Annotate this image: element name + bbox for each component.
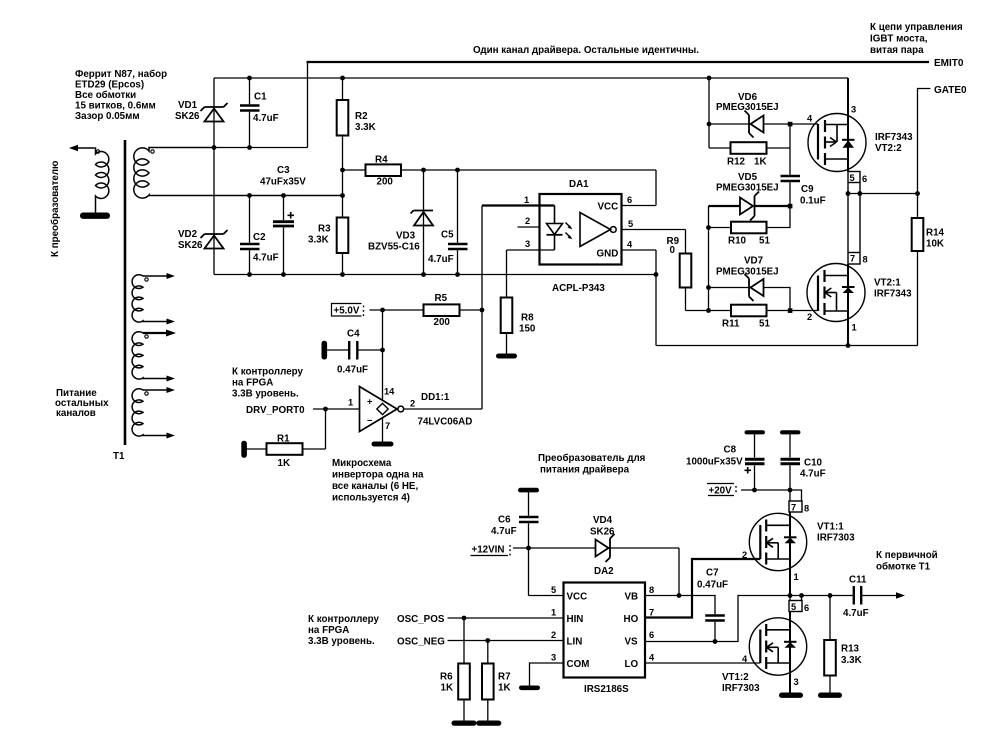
optocoupler DA1 box [540,194,622,265]
svg-text:R2: R2 [355,111,368,122]
capacitor C6 [528,492,530,516]
svg-text:6: 6 [649,630,654,640]
capacitor C5 [457,170,459,243]
svg-text:SK26: SK26 [175,111,200,122]
svg-text:витая пара: витая пара [870,45,924,56]
svg-text:4.7uF: 4.7uF [253,113,279,124]
svg-text:6: 6 [862,174,867,184]
svg-text:3.3В уровень.: 3.3В уровень. [308,636,375,647]
svg-text:R12: R12 [727,157,746,168]
DA1 pin 6 wire [622,205,657,207]
capacitor C3 electrolytic [283,196,285,221]
svg-text:ACPL-P343: ACPL-P343 [552,283,605,294]
svg-text:R7: R7 [498,672,511,683]
svg-text:+5.0V: +5.0V [334,306,360,317]
svg-text:EMIT0: EMIT0 [934,58,964,69]
svg-text:PMEG3015EJ: PMEG3015EJ [716,102,779,113]
DA2 pin4 LO wire [645,662,760,664]
svg-text:Преобразователь для: Преобразователь для [538,453,646,464]
winding 2 arrows [167,273,176,279]
resistor R7 [487,641,489,664]
wire rail y78 [214,77,848,79]
DA1 pin 2 stub [518,226,540,228]
svg-text:DD1:1: DD1:1 [421,392,450,403]
polarity dot winding 3 [145,335,148,338]
MOSFET VT1:2 IRF7303 n-channel [749,618,806,675]
svg-text:1000uFx35V: 1000uFx35V [686,457,743,468]
svg-text:C6: C6 [498,515,511,526]
svg-text:T1: T1 [113,451,125,462]
pin box 7/8 VT1:1 [789,501,802,512]
svg-text:VD4: VD4 [593,515,613,526]
svg-text:LIN: LIN [567,637,583,648]
svg-text:инвертора одна на: инвертора одна на [332,470,424,481]
svg-text:R10: R10 [728,236,747,247]
svg-text:VT1:1: VT1:1 [817,522,844,533]
svg-text:8: 8 [804,504,809,514]
resistor R13 [829,596,831,641]
svg-text:IGBT моста,: IGBT моста, [870,34,928,45]
svg-text:+: + [367,397,373,407]
svg-text:OSC_NEG: OSC_NEG [397,637,445,648]
svg-text:LO: LO [625,659,639,670]
svg-text:DA2: DA2 [594,566,614,577]
ground above C6 [518,488,539,493]
power port +20V [707,483,734,485]
svg-text:PMEG3015EJ: PMEG3015EJ [716,267,779,278]
diode VD2 SK26 [201,230,228,249]
DA1 internal buffer triangle [580,213,611,247]
transformer T1 core [124,140,127,445]
svg-text:200: 200 [377,177,394,188]
resistor R8 [506,250,508,298]
svg-text:3.3K: 3.3K [355,122,376,133]
capacitor C8 electrolytic [754,434,756,458]
svg-text:5: 5 [628,219,633,229]
svg-text:51: 51 [759,319,770,330]
resistor R12 [709,147,731,149]
svg-text:VS: VS [625,637,639,648]
svg-text:все каналы (6 НЕ,: все каналы (6 НЕ, [332,481,418,492]
svg-text:6: 6 [627,195,632,205]
transformer winding 3 [132,332,171,379]
wire R9 to R11 row [686,310,732,312]
resistor R9 [685,230,687,254]
svg-text:VCC: VCC [598,202,619,213]
DA1 pin 5 wire [622,229,686,231]
svg-text:+12VIN: +12VIN [472,545,505,556]
svg-text:5: 5 [850,173,855,183]
capacitor C4 [322,341,328,360]
svg-text:C1: C1 [254,92,267,103]
svg-text:C5: C5 [441,230,454,241]
svg-text:8: 8 [649,585,654,595]
svg-text:питания драйвера: питания драйвера [540,465,630,476]
svg-text:К контроллеру: К контроллеру [232,367,304,378]
svg-text:1: 1 [852,323,857,333]
svg-text:3.3В уровень.: 3.3В уровень. [232,389,299,400]
svg-text:1K: 1K [441,683,454,694]
svg-text:3: 3 [551,653,556,663]
svg-text:VT2:1: VT2:1 [874,278,901,289]
svg-text:Феррит N87, набор: Феррит N87, набор [75,69,167,80]
DD1 output wire [404,408,482,410]
diode VD7 PMEG3015EJ [709,287,751,289]
svg-text:Зазор 0.05мм: Зазор 0.05мм [75,111,140,122]
svg-text:1: 1 [524,195,529,205]
svg-text:обмотке Т1: обмотке Т1 [876,562,931,573]
svg-text:47uFx35V: 47uFx35V [260,177,306,188]
svg-text:0: 0 [670,245,676,256]
svg-text:4.7uF: 4.7uF [843,608,869,619]
capacitor C7 [705,614,725,616]
svg-text:1: 1 [794,572,799,582]
svg-text:IRF7303: IRF7303 [722,683,760,694]
resistor R6 [463,618,465,664]
transformer winding 2 [132,275,171,322]
svg-text:7: 7 [649,608,654,618]
svg-text:VD2: VD2 [178,229,198,240]
wire node column x482 [481,206,483,410]
DA1 pin 1 wire (bold) [482,204,555,206]
svg-text:Один канал драйвера. Остальные: Один канал драйвера. Остальные идентичны… [473,45,699,56]
svg-text:используется 4): используется 4) [332,493,410,504]
diode VD5 PMEG3015EJ (bold row) [709,205,741,207]
wire top lead to riser [214,147,308,149]
ground under primary [80,213,110,219]
svg-text:15 витков, 0.6мм: 15 витков, 0.6мм [75,101,156,112]
svg-text:2: 2 [807,312,812,322]
svg-text:14: 14 [384,387,395,397]
svg-text:51: 51 [759,236,770,247]
svg-text:0.1uF: 0.1uF [800,196,826,207]
svg-text:К первичной: К первичной [876,550,938,561]
driver DA2 box [564,583,646,678]
diode VD4 SK26 [596,534,615,562]
svg-text:4: 4 [649,653,655,663]
wire left column upper x709 [708,78,710,148]
ground above C10 [780,430,801,434]
svg-text:8: 8 [863,255,868,265]
wire gate node VT2:2 [790,123,818,125]
svg-text:0.47uF: 0.47uF [697,580,728,591]
polarity dot winding 2 [145,278,148,281]
svg-text:VD1: VD1 [178,100,198,111]
svg-text:R4: R4 [375,155,388,166]
svg-text:C10: C10 [804,458,823,469]
capacitor C10 [789,434,791,458]
svg-text:HIN: HIN [567,614,584,625]
svg-text:IRF7343: IRF7343 [875,132,913,143]
power port +5.0V [332,304,364,317]
svg-text:0.47uF: 0.47uF [337,365,368,376]
svg-text:150: 150 [519,324,536,335]
MOSFET VT2:2 IRF7343 p-channel [847,78,849,172]
DA1 pin 3 wire [507,249,555,251]
resistor R5 [424,304,460,316]
svg-text:2: 2 [551,630,556,640]
svg-text:7: 7 [850,254,855,264]
capacitor C11 [853,586,855,605]
svg-text:IRF7343: IRF7343 [874,289,912,300]
svg-text:BZV55-C16: BZV55-C16 [368,242,420,253]
wire bottom rail y274.5 [214,274,656,276]
DA2 pin2 LIN wire [448,640,564,642]
arrow to converter [69,145,78,151]
resistor R4 [343,169,366,171]
wire VD4 to VB [678,548,680,596]
svg-text:SK26: SK26 [178,240,203,251]
DA1 pin 4 wire [622,249,657,251]
resistor R2 [342,78,344,100]
svg-text:R8: R8 [521,313,534,324]
junction dots right top [706,76,920,348]
DA2 pin3 COM wire [530,663,564,686]
capacitor C1 [249,78,251,104]
svg-text:DA1: DA1 [569,179,589,190]
DD1 input wire [313,408,360,410]
polarity dot primary [96,150,99,153]
transformer primary winding (left) [71,148,109,214]
svg-text:Все обмотки: Все обмотки [75,90,136,101]
svg-text:5: 5 [551,585,556,595]
svg-text:OSC_POS: OSC_POS [397,614,445,625]
junction dots top rails [212,76,659,277]
svg-text:IRS2186S: IRS2186S [584,684,629,695]
svg-text:4.7uF: 4.7uF [253,253,279,264]
wire bottom rail right y345.5 [656,345,918,347]
svg-text:R5: R5 [435,293,448,304]
DA2 pin5 VCC wire [529,595,564,597]
svg-text:7: 7 [791,503,796,513]
svg-text:VD5: VD5 [738,172,758,183]
wire left column lower x708.5 [708,206,710,311]
ground left of R1 [241,441,247,458]
svg-text:4.7uF: 4.7uF [491,526,517,537]
DA2 pin8 VB wire [645,596,715,615]
MOSFET VT2:1 IRF7343 n-channel [807,264,865,322]
svg-text:ETD29 (Epcos): ETD29 (Epcos) [75,80,144,91]
svg-text:К контроллеру: К контроллеру [308,614,380,625]
svg-text:VT1:2: VT1:2 [722,672,749,683]
wire +20V row [741,490,802,501]
svg-text:C9: C9 [801,184,814,195]
svg-text:К преобразователю: К преобразователю [50,161,61,257]
svg-text:COM: COM [567,659,590,670]
svg-text:R1: R1 [277,434,290,445]
resistor R1 [325,409,327,449]
svg-text:2: 2 [410,399,415,409]
svg-text:GND: GND [597,249,619,260]
MOSFET VT1:1 IRF7303 n-channel [749,513,806,570]
svg-text:5: 5 [791,602,796,612]
svg-text:каналов: каналов [56,408,96,419]
resistor R14 [917,194,919,219]
pin box 5/6 VT1:2 [789,601,802,612]
svg-text:R14: R14 [926,228,945,239]
diode VD6 PMEG3015EJ [709,123,750,125]
svg-text:IRF7303: IRF7303 [817,533,855,544]
svg-text:VCC: VCC [567,592,588,603]
svg-text:2: 2 [525,216,530,226]
svg-text:4.7uF: 4.7uF [800,469,826,480]
svg-text:HO: HO [624,614,639,625]
resistor R10 [731,222,767,234]
svg-text:3: 3 [851,105,856,115]
resistor R3 [342,170,344,218]
resistor R11 [731,305,767,317]
svg-text:на FPGA: на FPGA [232,378,273,389]
transformer winding 4 [132,389,171,436]
svg-text:1K: 1K [754,157,767,168]
svg-text:GATE0: GATE0 [934,85,967,96]
svg-text:4: 4 [742,654,748,664]
svg-text:C11: C11 [849,575,867,586]
svg-text:DRV_PORT0: DRV_PORT0 [246,405,305,416]
DA2 pin7 HO wire (bold) [645,559,760,618]
junction dots middle [323,308,484,412]
capacitor C2 [249,196,251,243]
DA1 light arrows [566,223,572,229]
svg-text:C8: C8 [724,445,737,456]
svg-text:на FPGA: на FPGA [308,625,349,636]
inverter DD1:1 triangle [360,387,398,432]
svg-text:VD3: VD3 [396,231,416,242]
svg-text:3.3K: 3.3K [308,235,329,246]
transformer secondary winding 1 (top right) [134,148,343,199]
ground under VT1:2 [779,693,803,698]
DA2 pin1 HIN wire [448,617,564,619]
svg-text:7: 7 [385,421,390,431]
svg-text:VB: VB [625,592,639,603]
svg-text:200: 200 [434,317,451,328]
svg-text:R3: R3 [318,224,331,235]
svg-text:4: 4 [807,114,813,124]
svg-text:1: 1 [551,608,556,618]
svg-text:R11: R11 [722,319,740,330]
wire +12VIN row [513,547,596,549]
ground under R8 [496,354,517,359]
svg-text:74LVC06AD: 74LVC06AD [418,417,473,428]
svg-text:R6: R6 [440,672,453,683]
svg-text:1K: 1K [278,458,291,469]
wire top EMIT0 rail (bold) [307,62,309,148]
capacitor C9 [789,148,791,175]
DD1 pin7 ground [382,418,384,442]
wire output row y595.5 [790,595,854,597]
wire source row y193.5 [848,193,918,195]
svg-text:+20V: +20V [709,486,733,497]
pin box 5/6 to 7/8 of VT2 [848,172,860,265]
svg-text:VT2:2: VT2:2 [875,143,902,154]
svg-text:10K: 10K [926,239,944,250]
svg-text:3: 3 [525,239,530,249]
svg-text:1K: 1K [498,683,511,694]
svg-text:C7: C7 [706,568,719,579]
winding 4 arrows [167,387,176,393]
svg-text:1: 1 [348,398,353,408]
svg-text:2: 2 [742,550,747,560]
svg-text:R13: R13 [841,644,860,655]
svg-text:4.7uF: 4.7uF [428,254,454,265]
svg-text:Микросхема: Микросхема [332,458,392,469]
svg-text:−: − [367,416,373,426]
svg-text:PMEG3015EJ: PMEG3015EJ [716,183,779,194]
svg-text:4: 4 [627,240,633,250]
svg-text:6: 6 [804,603,809,613]
power port +12VIN [471,555,509,557]
wire VD1-VD2 column [213,78,215,275]
zener VD3 BZV55-C16 [423,170,425,275]
junction dots bottom [462,488,833,644]
wire C4 node to DD1 pin14 [382,310,384,401]
svg-text:SK26: SK26 [590,527,615,538]
svg-text:C4: C4 [347,329,360,340]
svg-text:C2: C2 [253,232,266,243]
svg-text:3.3K: 3.3K [841,655,862,666]
diode VD1 SK26 [201,103,228,122]
wire +5V to R5 [370,309,424,311]
svg-text:3: 3 [794,677,799,687]
polarity dot winding 1 [151,150,154,153]
svg-text:VD7: VD7 [744,256,764,267]
DA1 internal LED [554,206,556,224]
ground above C8 [745,430,766,434]
DA2 pin6 VS wire [645,596,790,642]
polarity dot winding 4 [145,392,148,395]
wire GATE0 [918,89,931,194]
winding 3 top lead (bold) [143,332,171,334]
svg-text:C3: C3 [277,165,290,176]
svg-text:К цепи управления: К цепи управления [870,22,963,33]
